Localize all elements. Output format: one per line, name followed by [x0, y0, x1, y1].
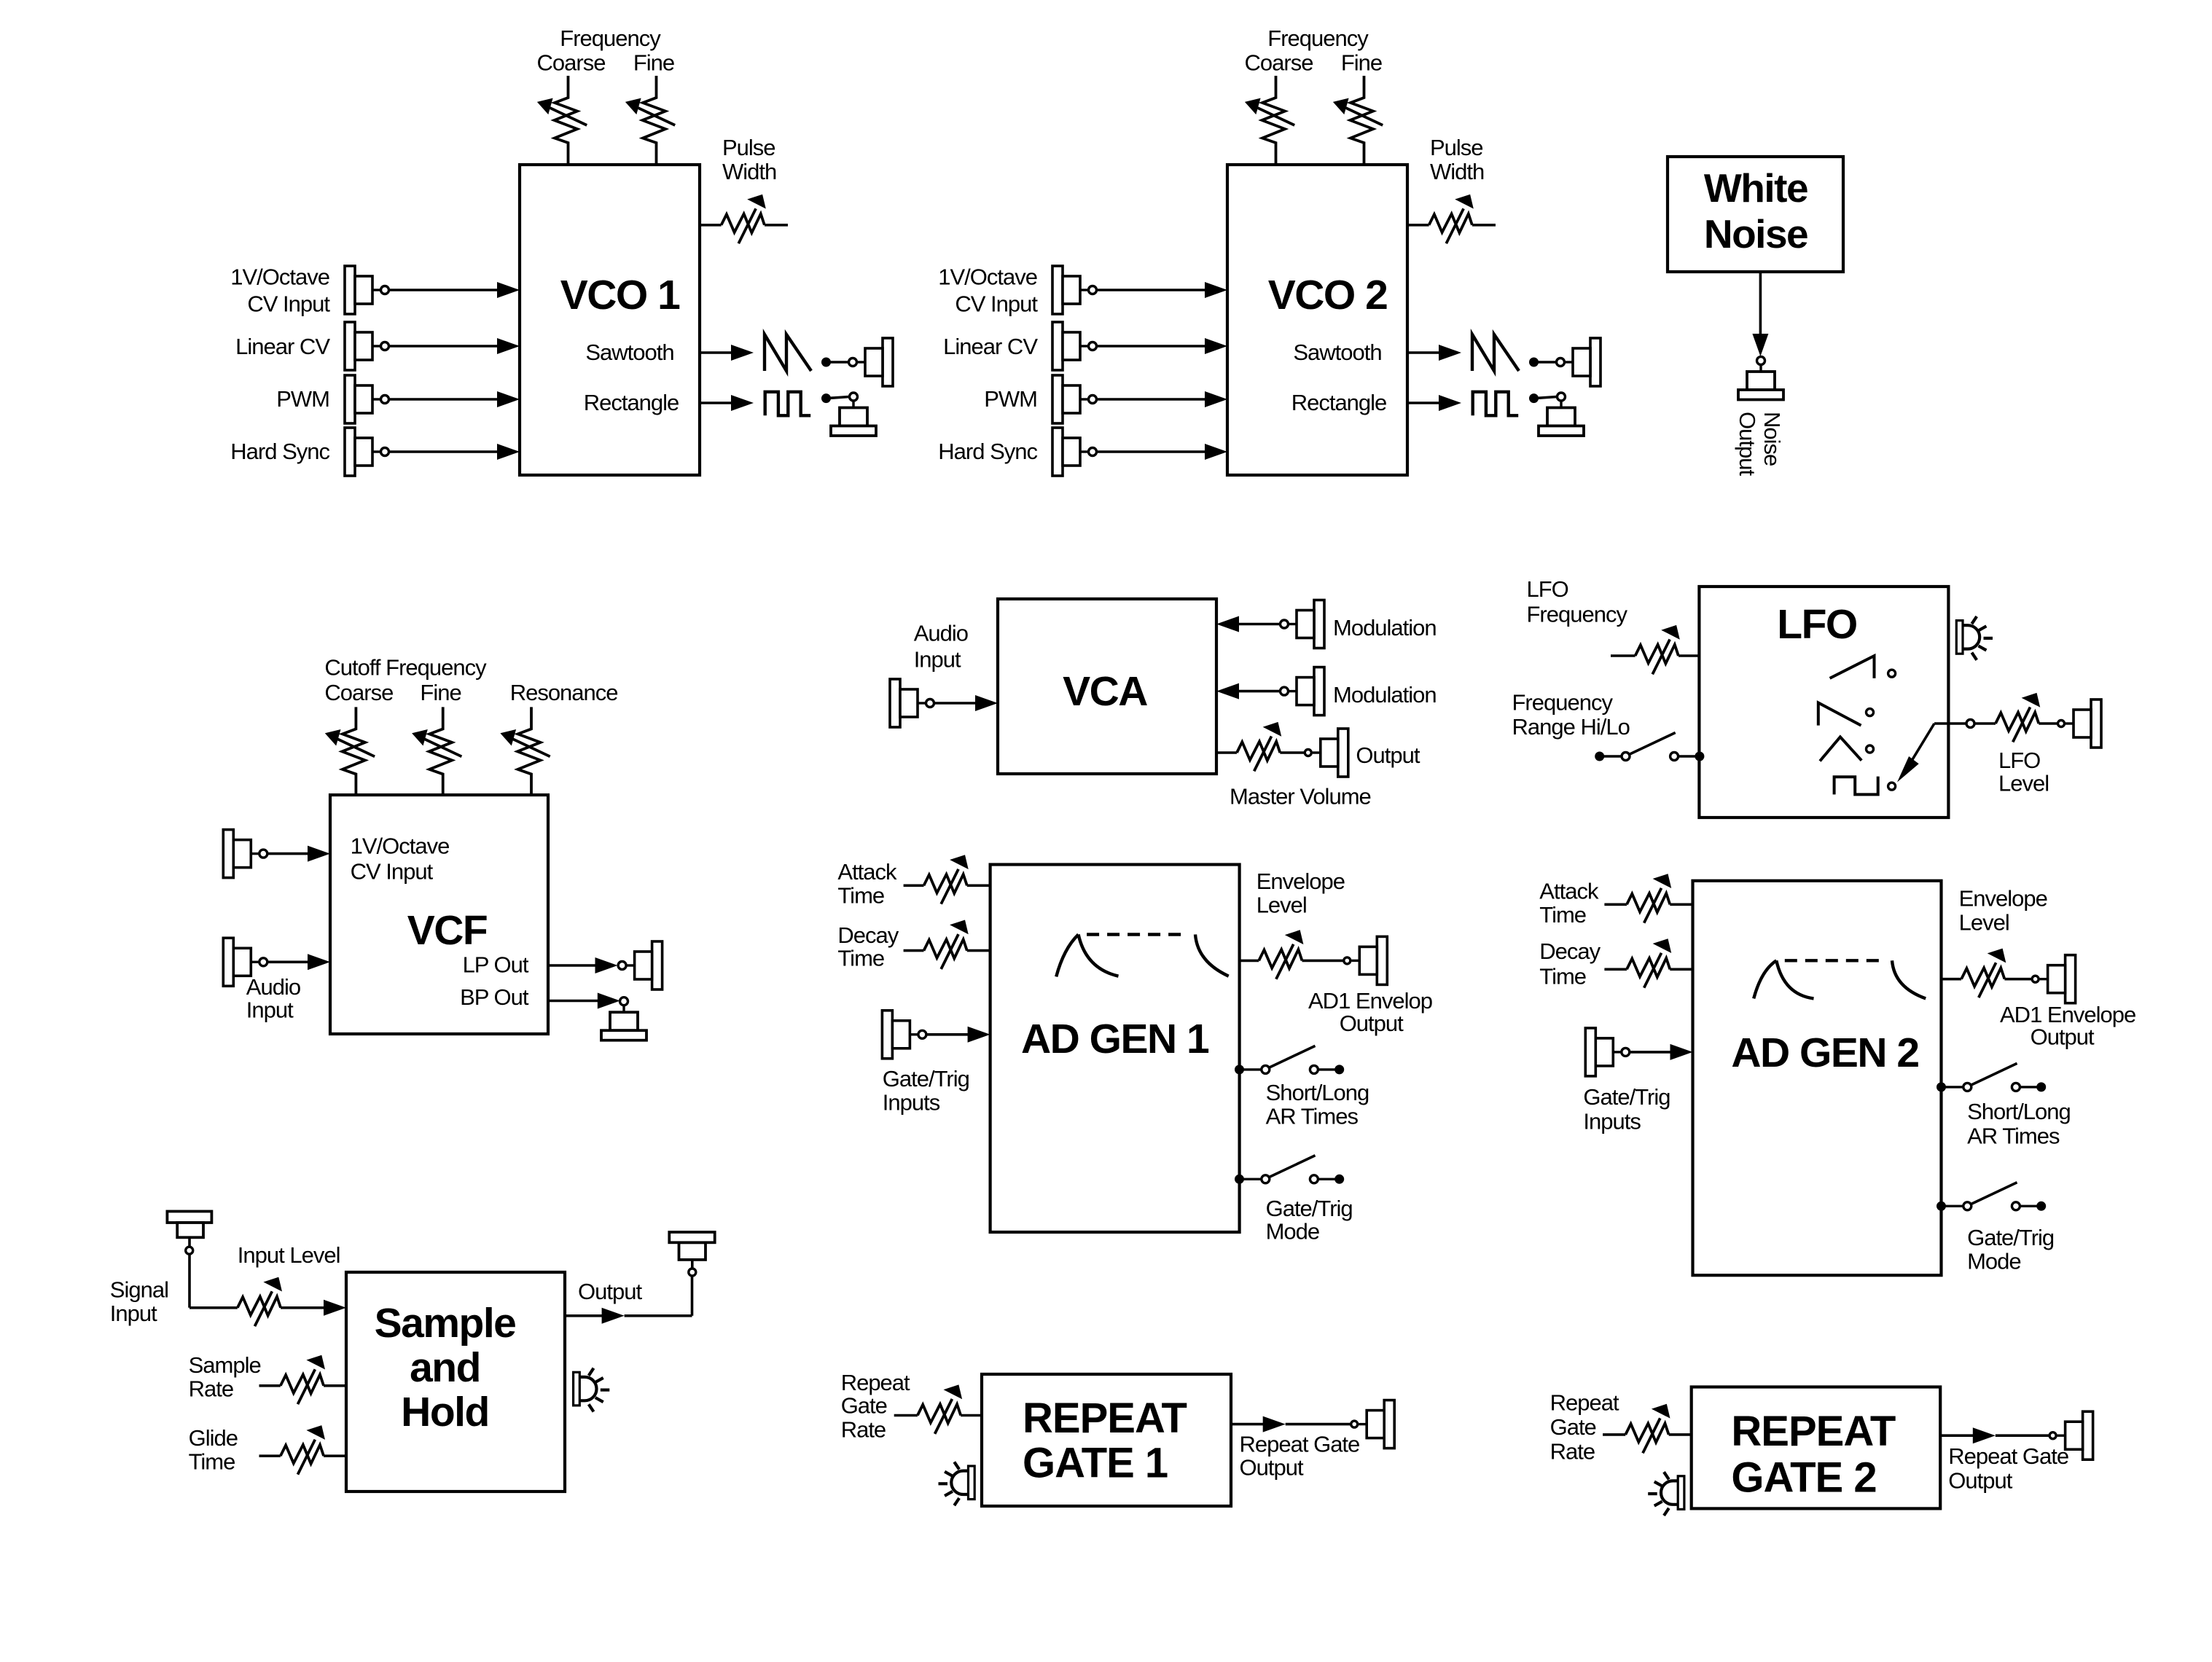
svg-text:1V/Octave: 1V/Octave	[351, 834, 450, 859]
svg-text:Hard Sync: Hard Sync	[938, 439, 1037, 464]
svg-text:Pulse: Pulse	[1430, 135, 1483, 160]
svg-text:Frequency: Frequency	[1527, 602, 1628, 627]
svg-text:Decay: Decay	[837, 922, 899, 948]
svg-text:Linear CV: Linear CV	[235, 334, 330, 359]
svg-text:LFO: LFO	[1998, 748, 2040, 773]
svg-text:Output: Output	[1735, 412, 1760, 476]
svg-text:AR Times: AR Times	[1266, 1103, 1359, 1129]
svg-text:Repeat Gate: Repeat Gate	[1240, 1432, 1360, 1457]
svg-text:Range Hi/Lo: Range Hi/Lo	[1512, 714, 1630, 740]
svg-text:AD GEN 1: AD GEN 1	[1021, 1016, 1209, 1062]
svg-text:Time: Time	[189, 1449, 235, 1474]
svg-text:Rate: Rate	[1550, 1439, 1595, 1465]
svg-text:GATE 1: GATE 1	[1023, 1440, 1168, 1487]
svg-text:CV Input: CV Input	[955, 291, 1038, 317]
svg-text:VCO 1: VCO 1	[560, 272, 680, 318]
svg-text:Sawtooth: Sawtooth	[585, 340, 673, 365]
svg-text:Time: Time	[837, 883, 884, 909]
svg-text:Gate/Trig: Gate/Trig	[1583, 1084, 1670, 1110]
svg-text:Time: Time	[1539, 964, 1586, 989]
svg-text:Coarse: Coarse	[324, 680, 393, 705]
svg-text:Attack: Attack	[837, 859, 897, 885]
svg-text:Gate/Trig: Gate/Trig	[883, 1066, 969, 1091]
svg-text:Output: Output	[1240, 1455, 1304, 1481]
svg-text:Rectangle: Rectangle	[584, 390, 679, 415]
svg-text:Output: Output	[2031, 1024, 2095, 1050]
svg-text:Audio: Audio	[246, 974, 300, 1000]
svg-text:Repeat: Repeat	[1550, 1390, 1619, 1416]
svg-text:VCA: VCA	[1063, 668, 1147, 715]
svg-text:Fine: Fine	[633, 50, 674, 76]
svg-text:LP Out: LP Out	[463, 952, 529, 978]
svg-text:Glide: Glide	[189, 1425, 238, 1451]
svg-text:Frequency: Frequency	[1267, 26, 1369, 51]
svg-text:Level: Level	[1959, 910, 2009, 936]
svg-text:Attack: Attack	[1539, 879, 1599, 904]
svg-text:AR Times: AR Times	[1967, 1124, 2060, 1149]
svg-text:Gate/Trig: Gate/Trig	[1266, 1196, 1353, 1221]
svg-text:Output: Output	[1356, 742, 1420, 768]
svg-text:Time: Time	[837, 945, 884, 971]
svg-text:Sample: Sample	[189, 1352, 261, 1378]
svg-text:Hold: Hold	[401, 1389, 489, 1435]
svg-text:Level: Level	[1257, 893, 1307, 918]
svg-text:Coarse: Coarse	[1245, 50, 1313, 76]
svg-text:Input: Input	[246, 997, 294, 1023]
svg-text:Rate: Rate	[189, 1376, 233, 1402]
svg-text:Hard Sync: Hard Sync	[230, 439, 329, 464]
svg-text:Repeat Gate: Repeat Gate	[1948, 1443, 2068, 1469]
svg-text:PWM: PWM	[276, 386, 329, 412]
svg-text:Linear CV: Linear CV	[943, 334, 1038, 359]
svg-text:Modulation: Modulation	[1333, 682, 1437, 707]
svg-text:Output: Output	[1948, 1468, 2012, 1494]
svg-text:BP Out: BP Out	[460, 984, 529, 1010]
svg-text:Noise: Noise	[1704, 211, 1807, 256]
svg-text:REPEAT: REPEAT	[1023, 1395, 1187, 1442]
svg-text:Envelope: Envelope	[1959, 886, 2047, 912]
svg-text:Inputs: Inputs	[883, 1090, 940, 1116]
svg-text:Input: Input	[110, 1301, 157, 1326]
svg-text:Mode: Mode	[1967, 1249, 2021, 1274]
svg-text:Output: Output	[578, 1279, 642, 1304]
svg-text:Gate: Gate	[841, 1393, 887, 1419]
svg-text:CV Input: CV Input	[351, 859, 434, 885]
svg-text:Width: Width	[1430, 159, 1484, 184]
svg-text:Rectangle: Rectangle	[1291, 390, 1387, 415]
svg-text:Decay: Decay	[1539, 938, 1601, 964]
svg-text:LFO: LFO	[1527, 576, 1568, 602]
svg-text:Time: Time	[1539, 902, 1586, 928]
svg-text:Repeat: Repeat	[841, 1370, 910, 1395]
svg-text:Fine: Fine	[420, 680, 461, 705]
svg-text:CV Input: CV Input	[247, 291, 330, 317]
svg-text:Input Level: Input Level	[238, 1242, 340, 1268]
svg-text:Fine: Fine	[1341, 50, 1382, 76]
svg-text:Output: Output	[1340, 1011, 1404, 1036]
svg-text:VCF: VCF	[407, 907, 488, 954]
svg-text:1V/Octave: 1V/Octave	[938, 264, 1037, 290]
svg-text:Width: Width	[722, 159, 776, 184]
svg-text:Pulse: Pulse	[722, 135, 775, 160]
svg-text:Mode: Mode	[1266, 1219, 1320, 1244]
svg-text:Cutoff Frequency: Cutoff Frequency	[324, 655, 487, 681]
svg-text:Signal: Signal	[110, 1277, 168, 1302]
svg-text:LFO: LFO	[1777, 601, 1856, 648]
svg-text:Gate: Gate	[1550, 1414, 1596, 1440]
svg-text:Short/Long: Short/Long	[1266, 1080, 1369, 1105]
svg-text:Sawtooth: Sawtooth	[1293, 340, 1381, 365]
svg-text:White: White	[1704, 165, 1807, 211]
svg-text:Input: Input	[914, 647, 961, 673]
svg-text:Sample: Sample	[375, 1300, 516, 1347]
svg-text:Audio: Audio	[914, 621, 968, 646]
svg-text:VCO 2: VCO 2	[1268, 272, 1388, 318]
svg-text:Frequency: Frequency	[560, 26, 661, 51]
svg-text:Noise: Noise	[1759, 412, 1785, 466]
svg-text:Rate: Rate	[841, 1416, 886, 1442]
svg-text:AD1 Envelop: AD1 Envelop	[1308, 988, 1432, 1014]
svg-text:Resonance: Resonance	[510, 680, 618, 705]
svg-text:Coarse: Coarse	[537, 50, 606, 76]
svg-text:REPEAT: REPEAT	[1731, 1408, 1896, 1455]
svg-text:Level: Level	[1998, 771, 2049, 796]
svg-text:Frequency: Frequency	[1512, 690, 1614, 716]
svg-text:Short/Long: Short/Long	[1967, 1099, 2071, 1124]
svg-text:and: and	[410, 1344, 480, 1391]
svg-text:Inputs: Inputs	[1583, 1109, 1641, 1134]
svg-text:Modulation: Modulation	[1333, 615, 1437, 640]
svg-text:Envelope: Envelope	[1257, 869, 1345, 894]
svg-text:1V/Octave: 1V/Octave	[230, 264, 329, 290]
svg-text:AD GEN 2: AD GEN 2	[1731, 1030, 1918, 1076]
svg-text:Gate/Trig: Gate/Trig	[1967, 1225, 2054, 1250]
svg-text:PWM: PWM	[984, 386, 1037, 412]
svg-text:GATE 2: GATE 2	[1731, 1454, 1876, 1502]
svg-text:Master Volume: Master Volume	[1230, 784, 1371, 810]
